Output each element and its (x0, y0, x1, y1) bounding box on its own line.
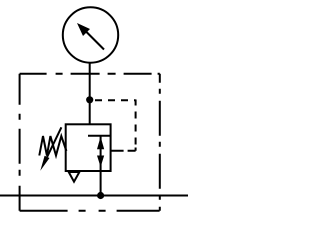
adjustment arrow (40, 127, 61, 171)
enclosure top edge (dash-dot) (20, 73, 160, 75)
spring S1 (regulating spring) (39, 136, 66, 156)
enclosure left edge (dash-dot) (19, 74, 21, 211)
wire gauge to valve (89, 64, 91, 125)
pressure gauge G1 (63, 7, 118, 62)
flow path arrow inside valve (88, 136, 111, 172)
drain / vent triangle (69, 172, 80, 182)
node pilot tap junction (86, 96, 93, 103)
enclosure right edge (dash-dot) (159, 74, 161, 211)
wire valve to main line (100, 171, 102, 195)
main line P (supply) (0, 195, 188, 197)
valve body V1 (pressure regulator) (66, 124, 111, 171)
pilot line (dashed) (95, 100, 136, 151)
node main line junction (97, 192, 104, 199)
enclosure bottom edge (dash-dot) (20, 210, 160, 212)
